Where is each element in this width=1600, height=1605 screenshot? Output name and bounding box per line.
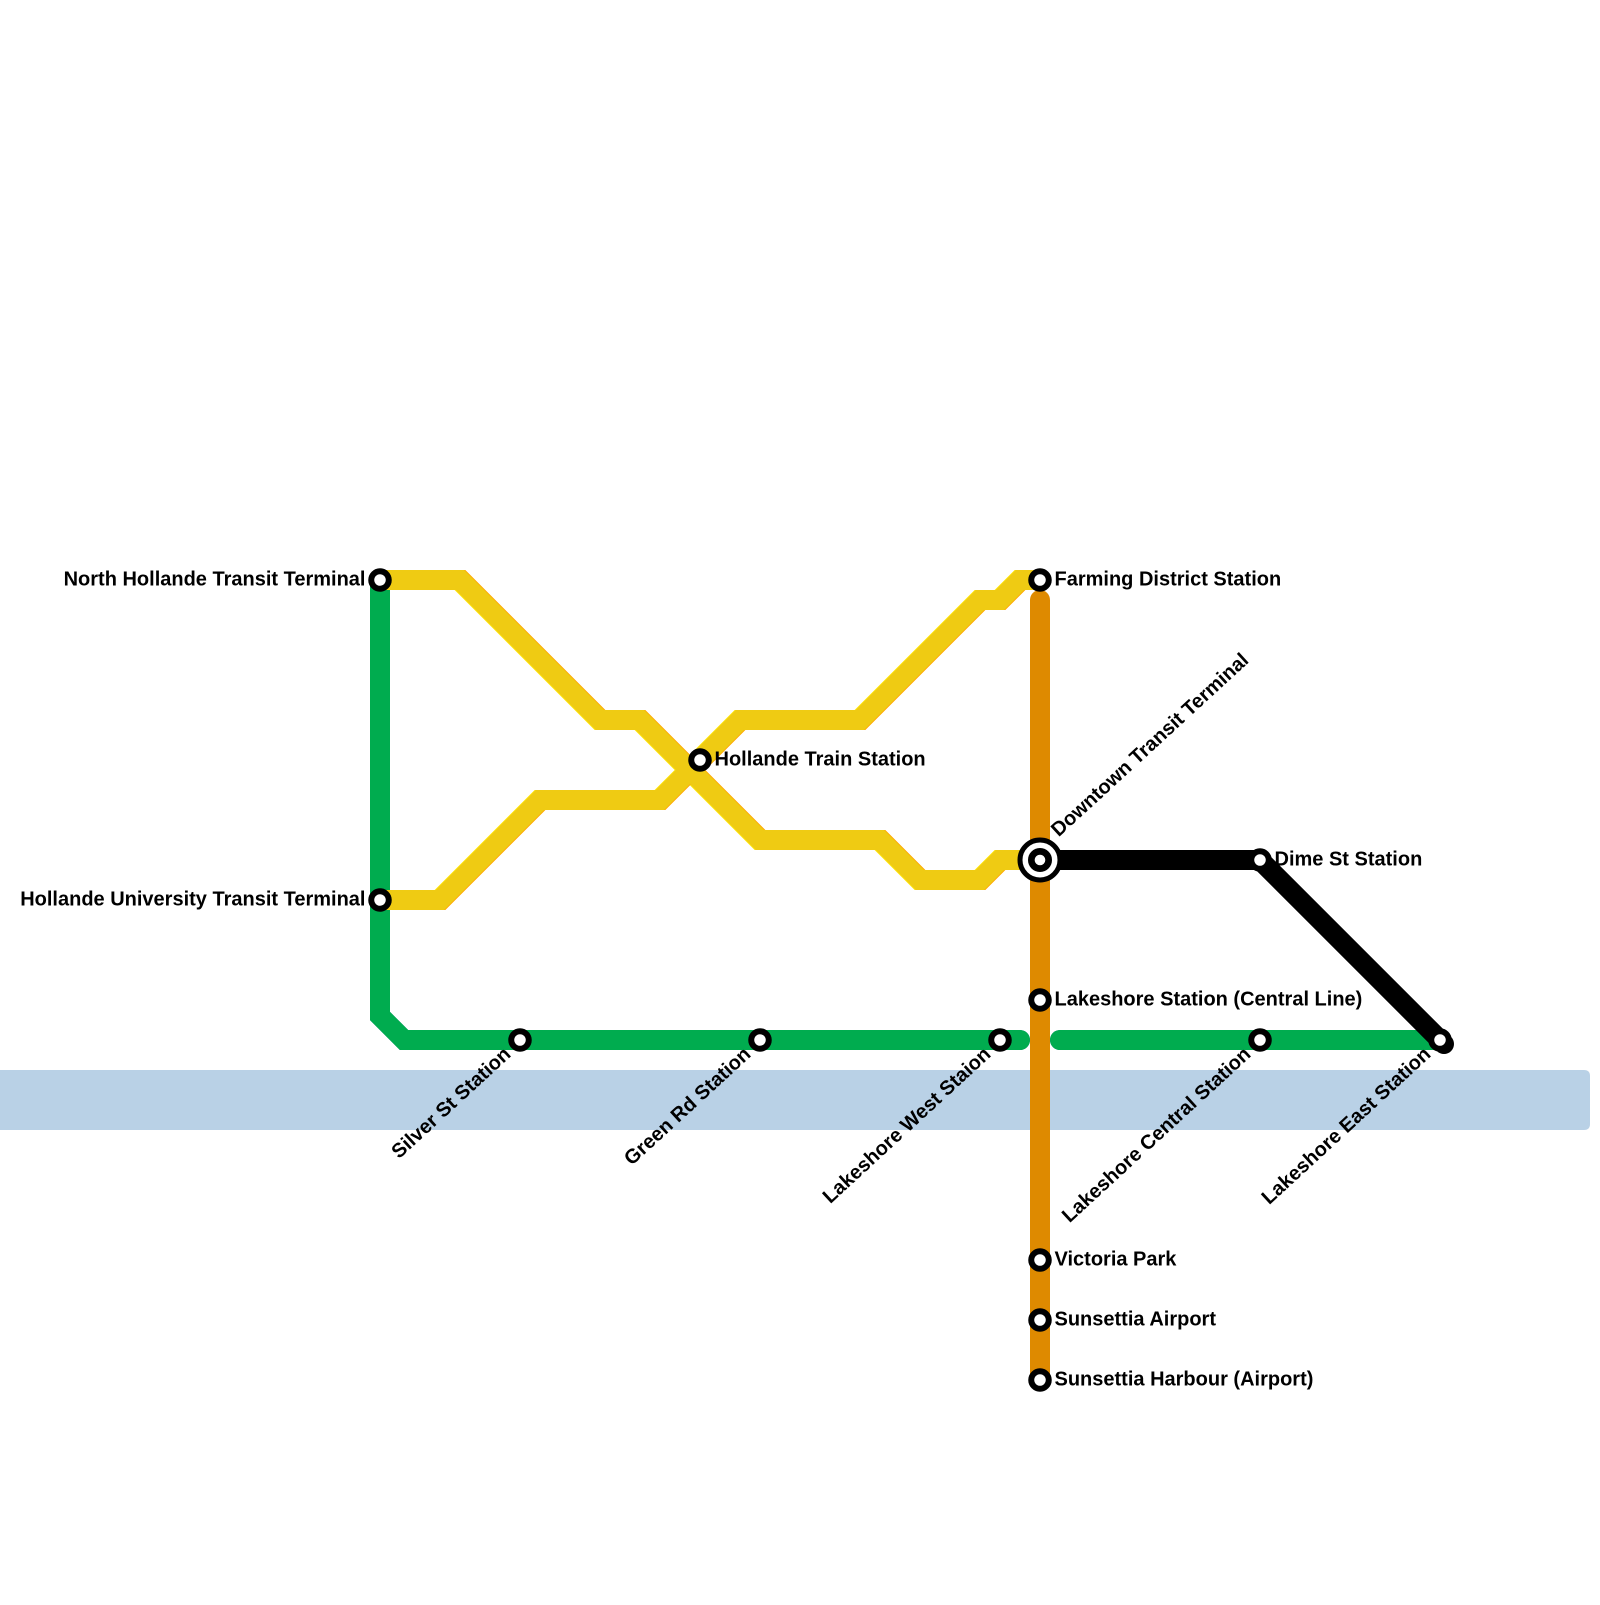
svg-text:Sunsettia Airport: Sunsettia Airport	[1055, 1309, 1217, 1331]
svg-text:Victoria Park: Victoria Park	[1055, 1249, 1178, 1271]
svg-text:North Hollande Transit Termina: North Hollande Transit Terminal	[64, 569, 366, 591]
svg-text:Lakeshore Station (Central Lin: Lakeshore Station (Central Line)	[1055, 989, 1363, 1011]
svg-text:Hollande University Transit Te: Hollande University Transit Terminal	[20, 889, 365, 911]
svg-text:Sunsettia Harbour (Airport): Sunsettia Harbour (Airport)	[1055, 1369, 1314, 1391]
svg-text:Hollande Train Station: Hollande Train Station	[715, 749, 926, 771]
svg-text:Dime St Station: Dime St Station	[1275, 849, 1423, 871]
svg-text:Farming District Station: Farming District Station	[1055, 569, 1282, 591]
